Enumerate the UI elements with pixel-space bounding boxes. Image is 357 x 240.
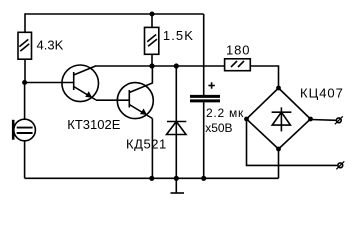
node junction dot Q2 emitter / ground rail <box>149 176 154 181</box>
svg-text:1.5K: 1.5K <box>163 28 194 43</box>
wire Q1 base <box>25 82 74 84</box>
svg-text:КД521: КД521 <box>126 137 167 152</box>
resistor R3 180 <box>225 59 251 71</box>
resistor R1 4.3K <box>18 32 32 59</box>
wire microphone bottom lead <box>24 141 26 179</box>
wire R3 to bridge top corner <box>250 66 278 88</box>
ground <box>171 178 185 193</box>
svg-text:х50В: х50В <box>205 121 232 135</box>
capacitor C1 2.2uF 50V electrolytic <box>190 82 220 101</box>
node junction dot top rail / R2 <box>150 12 155 17</box>
wire R2 top lead <box>151 14 153 27</box>
node junction dot capacitor bottom / ground rail <box>201 176 206 181</box>
wire bridge left corner to output terminal 2 <box>247 119 338 165</box>
wire Q2 emitter down <box>151 119 153 179</box>
node junction dot diode top <box>174 63 179 68</box>
wire Q1 emitter to Q2 base <box>96 99 129 101</box>
diode VD1 KD521 <box>167 66 187 178</box>
wire microphone top lead <box>24 83 26 120</box>
wire R1 bottom lead <box>24 59 26 82</box>
node bridge top corner dot <box>276 86 281 91</box>
wire top rail <box>25 13 204 15</box>
svg-text:КЦ407: КЦ407 <box>300 85 344 100</box>
wire R2 bottom lead <box>151 54 153 66</box>
wire bridge bottom corner to ground rail <box>278 149 280 178</box>
node bridge right corner dot <box>308 117 313 122</box>
wire collector rail mid <box>95 65 225 67</box>
terminal output 2 <box>336 161 344 169</box>
bridge rectifier VD2 KC407 <box>247 88 311 149</box>
svg-text:КТ3102Е: КТ3102Е <box>67 117 120 132</box>
microphone BM1 electret <box>13 119 35 141</box>
transistor Q1 KT3102E <box>62 65 99 102</box>
node bridge left corner dot <box>244 117 249 122</box>
node junction dot diode bottom / ground rail <box>174 176 179 181</box>
terminal output 1 <box>335 116 343 124</box>
wire ground rail bottom <box>25 177 279 179</box>
node bridge bottom corner dot <box>276 147 281 152</box>
svg-text:2.2 мк: 2.2 мк <box>206 106 244 120</box>
svg-text:4.3K: 4.3K <box>37 38 64 53</box>
svg-text:180: 180 <box>226 43 250 58</box>
wire capacitor bottom lead <box>203 102 205 178</box>
node junction dot R2 bottom / collector rail <box>149 63 154 68</box>
node junction dot R1/base/mic <box>22 80 27 85</box>
wire R1 top lead <box>24 13 26 32</box>
transistor Q2 KT3102E <box>117 66 153 119</box>
wire capacitor top lead <box>203 14 205 95</box>
wire bridge right corner to output terminal 1 <box>311 119 337 122</box>
resistor R2 1.5K <box>145 27 159 54</box>
